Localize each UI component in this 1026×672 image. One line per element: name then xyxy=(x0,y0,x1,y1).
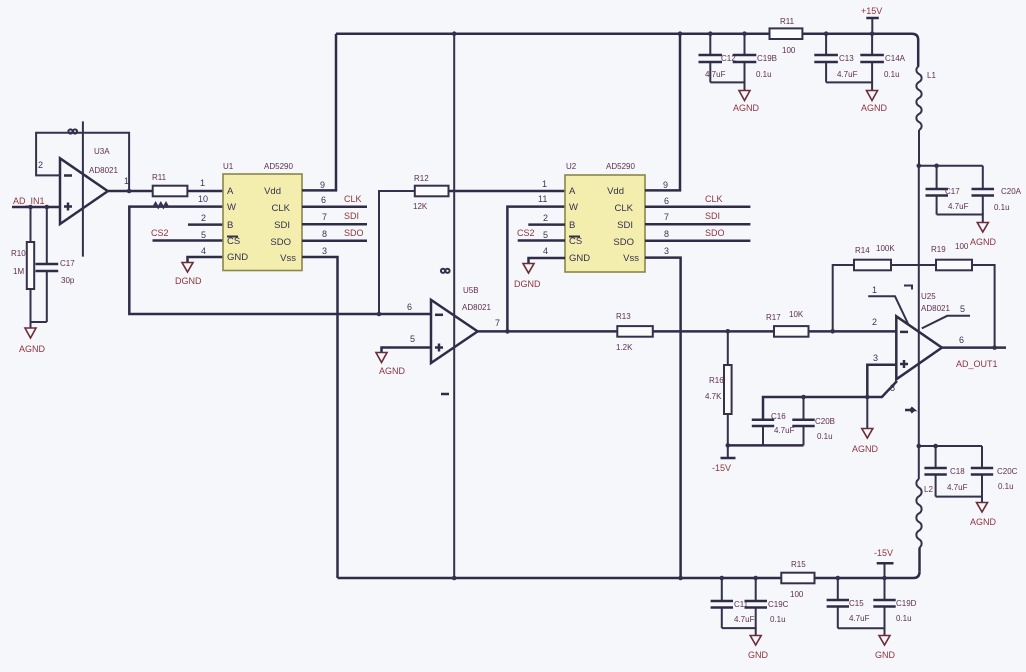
svg-text:GND: GND xyxy=(875,650,896,660)
svg-text:5: 5 xyxy=(960,304,965,314)
svg-text:U2: U2 xyxy=(566,162,577,171)
svg-text:1: 1 xyxy=(542,179,547,189)
pin 4 U2 xyxy=(543,246,548,256)
wire C17/C20A node xyxy=(919,165,983,167)
resistor R16 4.7K (to -15V) xyxy=(705,331,732,458)
svg-text:AD_IN1: AD_IN1 xyxy=(13,196,45,206)
svg-text:4.7uF: 4.7uF xyxy=(734,615,755,624)
svg-text:C20B: C20B xyxy=(815,417,835,426)
capacitor C17 4.7uF xyxy=(926,166,969,215)
svg-text:C15: C15 xyxy=(849,599,864,608)
op-amp U25 AD8021 xyxy=(896,292,950,379)
junction R12/minus xyxy=(377,312,382,317)
wire U2 W to U5B output xyxy=(507,207,565,332)
svg-text:SDI: SDI xyxy=(344,211,359,221)
wire -15V bottom rail xyxy=(338,572,920,578)
pin 1 U25 stub xyxy=(868,285,908,325)
wire U2 SDO xyxy=(645,228,750,241)
wire C13/C14A bottom xyxy=(826,82,872,90)
svg-text:A: A xyxy=(227,186,234,197)
svg-text:AD8021: AD8021 xyxy=(462,303,491,312)
junction U5B out / U2 W drop xyxy=(505,329,510,334)
ground AGND (C20C) xyxy=(970,503,997,528)
wire U25 plus to AGND node xyxy=(867,365,896,397)
resistor R12 (feedback U5B) xyxy=(413,174,449,211)
ground DGND (U2) xyxy=(514,264,541,290)
svg-text:C14A: C14A xyxy=(885,54,906,63)
svg-text:1: 1 xyxy=(872,285,877,295)
junction output/feedback xyxy=(127,189,132,194)
svg-text:-15V: -15V xyxy=(874,548,893,558)
svg-text:9: 9 xyxy=(320,180,325,190)
pin 3 U1 xyxy=(322,246,327,256)
wire node to caps C16/C20B xyxy=(763,397,867,420)
svg-text:CS: CS xyxy=(569,236,582,247)
resistor R14 100K (feedback) xyxy=(833,244,936,331)
inductor L1 xyxy=(916,40,936,166)
wire U2 SDI xyxy=(645,211,750,224)
svg-text:U3A: U3A xyxy=(94,147,110,156)
node AD_IN1 xyxy=(13,196,45,206)
power +15V xyxy=(861,6,882,34)
resistor R15 100 (bottom rail) xyxy=(781,560,814,599)
svg-text:0.1u: 0.1u xyxy=(896,614,912,623)
svg-text:0.1u: 0.1u xyxy=(817,432,833,441)
svg-text:100: 100 xyxy=(790,590,804,599)
svg-text:+15V: +15V xyxy=(861,6,882,16)
capacitor C20A 0.1u xyxy=(972,166,1022,215)
node AD_OUT1 xyxy=(956,359,998,369)
squiggle marks on W wire xyxy=(153,203,168,208)
pin 2 U25 xyxy=(872,317,877,327)
pin 11 U2 xyxy=(538,194,547,204)
wire C11/C19C bottom xyxy=(722,628,756,635)
svg-text:4: 4 xyxy=(543,246,548,256)
resistor R11 xyxy=(152,173,187,196)
svg-text:6: 6 xyxy=(407,302,412,312)
pin 9 U2 xyxy=(663,180,668,190)
ground DGND (U1) xyxy=(175,263,202,287)
svg-text:3: 3 xyxy=(873,353,878,363)
U3A power line with oo mark xyxy=(68,121,83,256)
svg-text:0.1u: 0.1u xyxy=(994,203,1010,212)
inductor L2 xyxy=(916,446,933,572)
svg-text:R14: R14 xyxy=(855,246,870,255)
svg-text:AD5290: AD5290 xyxy=(606,162,635,171)
U25 power line xyxy=(904,166,919,446)
IC U1 AD5290 xyxy=(223,162,302,271)
wire U2 CLK xyxy=(645,194,750,207)
svg-text:C13: C13 xyxy=(839,54,854,63)
wire U1 W loop to U5B minus xyxy=(129,207,431,314)
op-amp U5B AD8021 xyxy=(431,286,491,363)
op-amp U3A AD8021 xyxy=(60,147,118,224)
pin 5 U2 xyxy=(543,230,548,240)
svg-text:CLK: CLK xyxy=(705,194,723,204)
svg-text:DGND: DGND xyxy=(175,276,202,286)
svg-text:100: 100 xyxy=(955,242,969,251)
resistor R19 100 xyxy=(931,242,995,348)
svg-text:R11: R11 xyxy=(152,173,167,182)
svg-text:AGND: AGND xyxy=(970,517,997,527)
wire R11 to U1 pin A xyxy=(187,190,223,193)
svg-text:SDI: SDI xyxy=(274,220,290,231)
svg-text:-15V: -15V xyxy=(712,463,731,473)
svg-text:C20C: C20C xyxy=(997,467,1018,476)
junction U2 Vss / bottom rail xyxy=(678,576,683,581)
wire U2 Vdd to +15V rail xyxy=(645,34,680,191)
wire U1 SDO xyxy=(302,228,367,241)
svg-text:1M: 1M xyxy=(13,267,24,276)
svg-text:1.2K: 1.2K xyxy=(616,343,633,352)
wire U3A feedback loop xyxy=(36,133,129,191)
svg-text:4.7uF: 4.7uF xyxy=(837,70,858,79)
wire R12 left leg to U5B minus node xyxy=(379,191,415,314)
svg-text:SDO: SDO xyxy=(705,228,725,238)
svg-text:9: 9 xyxy=(663,180,668,190)
wire C17/C20A bottom xyxy=(937,215,983,223)
svg-text:8: 8 xyxy=(890,383,895,393)
svg-text:6: 6 xyxy=(321,195,326,205)
resistor R11b 100 (top rail) xyxy=(770,17,803,55)
pin 6 U5B xyxy=(407,302,412,312)
svg-text:AGND: AGND xyxy=(19,344,46,354)
svg-text:11: 11 xyxy=(538,194,547,204)
svg-text:U1: U1 xyxy=(223,162,234,171)
svg-text:0.1u: 0.1u xyxy=(998,482,1014,491)
svg-text:R19: R19 xyxy=(931,245,946,254)
wire C18/C20C node xyxy=(919,445,982,447)
svg-text:12K: 12K xyxy=(413,202,428,211)
svg-text:5: 5 xyxy=(543,230,548,240)
svg-text:R17: R17 xyxy=(766,313,781,322)
pin 5 U1 xyxy=(201,230,206,240)
svg-text:6: 6 xyxy=(959,335,964,345)
svg-text:SDO: SDO xyxy=(613,237,634,248)
svg-text:AGND: AGND xyxy=(852,444,879,454)
svg-text:C19B: C19B xyxy=(757,54,777,63)
pin 1 U3A xyxy=(124,176,129,186)
svg-text:AD8021: AD8021 xyxy=(921,304,950,313)
svg-text:GND: GND xyxy=(227,252,248,263)
wire U25 output xyxy=(942,346,1006,349)
capacitor C20C 0.1u xyxy=(971,446,1018,497)
svg-text:R12: R12 xyxy=(414,174,429,183)
svg-text:7: 7 xyxy=(322,212,327,222)
wire C18/C20C bottom xyxy=(936,497,982,502)
svg-text:AD5290: AD5290 xyxy=(264,162,293,171)
svg-text:R15: R15 xyxy=(791,560,806,569)
wire C12/C19B bottom xyxy=(710,82,744,90)
svg-text:A: A xyxy=(569,186,576,197)
svg-text:W: W xyxy=(227,202,236,213)
svg-text:R13: R13 xyxy=(616,312,631,321)
svg-text:L2: L2 xyxy=(924,485,933,494)
wire CS2 to U1 CS xyxy=(153,239,224,242)
resistor R13 1.2K xyxy=(616,312,653,352)
wire U1 GND to DGND xyxy=(188,257,224,262)
resistor R10 1M (vertical, input bias) xyxy=(11,207,34,322)
U5B power line with oo and tick xyxy=(441,34,454,578)
svg-text:7: 7 xyxy=(495,318,500,328)
pin 9 U1 xyxy=(320,180,325,190)
IC U2 AD5290 xyxy=(565,162,645,272)
svg-text:L1: L1 xyxy=(927,71,936,80)
svg-text:R11: R11 xyxy=(780,17,795,26)
svg-text:SDI: SDI xyxy=(617,220,633,231)
svg-text:B: B xyxy=(227,220,233,231)
svg-text:C20A: C20A xyxy=(1001,187,1022,196)
pin 5 U25 stub xyxy=(922,304,970,328)
svg-text:C17: C17 xyxy=(60,259,75,268)
ground AGND (C20A) xyxy=(970,223,997,248)
ground GND (C19D) xyxy=(875,636,896,661)
svg-text:GND: GND xyxy=(748,650,769,660)
ground GND (C19C) xyxy=(748,636,769,661)
capacitor C11 4.7uF (bottom rail) xyxy=(711,578,755,628)
pin 1 U1 xyxy=(200,178,205,188)
svg-text:R10: R10 xyxy=(11,249,26,258)
pin 2 U1 xyxy=(201,213,206,223)
svg-text:CLK: CLK xyxy=(344,194,362,204)
ground AGND (U25 +) xyxy=(852,397,879,454)
svg-text:2: 2 xyxy=(872,317,877,327)
junction input node xyxy=(28,205,33,210)
capacitor C19B 0.1u (top rail) xyxy=(733,34,777,83)
ground AGND (input) xyxy=(19,322,46,354)
wire U3A output to R11 xyxy=(108,190,153,193)
wire U1 pin B stub xyxy=(188,223,223,226)
svg-text:100: 100 xyxy=(782,46,796,55)
svg-text:0.1u: 0.1u xyxy=(756,70,772,79)
wire U2 Vss to -15V rail xyxy=(645,258,681,578)
capacitor C13 4.7uF xyxy=(814,34,857,83)
pin 10 U1 xyxy=(198,194,208,204)
svg-text:B: B xyxy=(569,220,575,231)
wire C16/C20B bottom to R16 xyxy=(728,444,804,447)
svg-text:CLK: CLK xyxy=(615,203,634,214)
svg-text:SDO: SDO xyxy=(270,237,291,248)
resistor R17 10K xyxy=(766,310,809,337)
svg-text:U5B: U5B xyxy=(463,286,479,295)
pin 4 U1 xyxy=(201,246,206,256)
capacitor C15 4.7uF xyxy=(827,578,870,628)
power -15V (R16) xyxy=(712,458,736,473)
svg-text:C18: C18 xyxy=(950,467,965,476)
svg-text:AGND: AGND xyxy=(733,103,760,113)
wire U1 SDI xyxy=(302,211,367,224)
node CS2 (U2) xyxy=(517,228,535,238)
svg-text:AD8021: AD8021 xyxy=(89,166,118,175)
capacitor C20B 0.1u xyxy=(792,397,835,445)
svg-text:7: 7 xyxy=(664,212,669,222)
node CS2 (U1) xyxy=(151,228,169,238)
pin 8 U25 stub xyxy=(867,381,897,397)
svg-text:2: 2 xyxy=(38,160,43,170)
pin 3 U2 xyxy=(664,246,669,256)
svg-text:8: 8 xyxy=(322,229,327,239)
svg-text:U25: U25 xyxy=(921,292,936,301)
svg-text:Vss: Vss xyxy=(623,253,639,264)
svg-text:5: 5 xyxy=(201,230,206,240)
capacitor C19C 0.1u (bottom rail) xyxy=(745,578,789,628)
wire C15/C19D bottom xyxy=(838,628,885,635)
svg-text:AD_OUT1: AD_OUT1 xyxy=(956,359,998,369)
svg-text:C17: C17 xyxy=(945,187,960,196)
svg-text:GND: GND xyxy=(569,253,590,264)
svg-text:AGND: AGND xyxy=(379,366,406,376)
svg-text:R16: R16 xyxy=(709,376,724,385)
svg-text:CS2: CS2 xyxy=(151,228,169,238)
svg-text:Vdd: Vdd xyxy=(607,186,624,197)
svg-text:Vdd: Vdd xyxy=(264,186,281,197)
pin 6 U25 xyxy=(959,335,964,345)
wire U2 GND to DGND xyxy=(529,258,566,263)
svg-text:4.7uF: 4.7uF xyxy=(705,70,726,79)
svg-text:30p: 30p xyxy=(61,276,75,285)
capacitor C12 4.7uF (top rail) xyxy=(699,34,737,83)
pin 7 U5B xyxy=(495,318,500,328)
pin 5 U5B xyxy=(410,334,415,344)
svg-text:1: 1 xyxy=(124,176,129,186)
wire U1 CLK xyxy=(302,194,367,207)
svg-text:6: 6 xyxy=(664,196,669,206)
svg-text:100K: 100K xyxy=(876,244,895,253)
wire U5B plus to AGND xyxy=(382,348,432,353)
wire CS2 to U2 CS xyxy=(518,239,565,242)
capacitor C17 30p (input) xyxy=(31,207,76,322)
pin 1 U2 xyxy=(542,179,547,189)
svg-text:C16: C16 xyxy=(771,412,786,421)
svg-text:Vss: Vss xyxy=(280,253,296,264)
svg-text:C19D: C19D xyxy=(896,599,917,608)
capacitor C14A 0.1u xyxy=(860,34,905,83)
wire U2 pin B stub xyxy=(528,223,565,226)
svg-text:5: 5 xyxy=(410,334,415,344)
svg-text:4.7uF: 4.7uF xyxy=(948,202,969,211)
svg-text:3: 3 xyxy=(322,246,327,256)
svg-text:AGND: AGND xyxy=(970,237,997,247)
svg-text:4: 4 xyxy=(201,246,206,256)
capacitor C18 4.7uF xyxy=(924,446,967,497)
pin 3 U25 xyxy=(873,353,878,363)
wire U1 Vdd to +15V rail xyxy=(302,34,336,191)
wire R12 right to U2 pin A xyxy=(449,190,566,193)
pin 2 U2 xyxy=(543,213,548,223)
pin 2 U3A xyxy=(38,160,43,170)
svg-text:SDI: SDI xyxy=(705,211,720,221)
wire U5B output row to U25 minus xyxy=(478,330,897,333)
wire +15V top rail xyxy=(336,34,918,40)
svg-text:3: 3 xyxy=(664,246,669,256)
capacitor C16 4.7uF xyxy=(752,412,795,445)
svg-text:1: 1 xyxy=(200,178,205,188)
ground AGND (C19B) xyxy=(733,91,760,114)
ground AGND (U5B) xyxy=(376,353,406,377)
power -15V (bottom rail) xyxy=(874,548,894,578)
svg-text:0.1u: 0.1u xyxy=(884,70,900,79)
svg-text:DGND: DGND xyxy=(514,279,541,289)
svg-text:C19C: C19C xyxy=(768,600,789,609)
wire U1 Vss to -15V rail xyxy=(302,257,338,578)
capacitor C19D 0.1u xyxy=(873,578,916,628)
svg-text:10K: 10K xyxy=(789,310,804,319)
svg-text:W: W xyxy=(569,202,578,213)
svg-text:10: 10 xyxy=(198,194,208,204)
svg-text:4.7uF: 4.7uF xyxy=(774,426,795,435)
svg-text:CLK: CLK xyxy=(272,203,291,214)
svg-text:CS2: CS2 xyxy=(517,228,535,238)
ground AGND (C14A) xyxy=(861,91,888,114)
svg-text:4.7uF: 4.7uF xyxy=(849,614,870,623)
svg-text:0.1u: 0.1u xyxy=(770,615,786,624)
svg-text:AGND: AGND xyxy=(861,103,888,113)
svg-text:CS: CS xyxy=(227,236,240,247)
svg-text:4.7uF: 4.7uF xyxy=(947,483,968,492)
wire input AD_IN1 to U3A + xyxy=(12,206,60,209)
svg-text:SDO: SDO xyxy=(344,228,364,238)
svg-text:8: 8 xyxy=(664,229,669,239)
svg-text:2: 2 xyxy=(201,213,206,223)
svg-text:4.7K: 4.7K xyxy=(705,392,722,401)
svg-text:2: 2 xyxy=(543,213,548,223)
